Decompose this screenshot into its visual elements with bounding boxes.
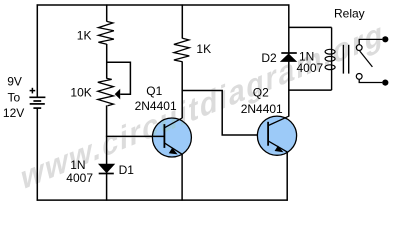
wire R2 top lead [181,4,183,38]
relay coil RL1 [325,49,335,69]
svg-text:Relay: Relay [334,7,365,21]
svg-text:1K: 1K [196,42,211,56]
svg-text:Q1: Q1 [146,84,162,98]
wire relay top branch [289,26,332,28]
relay contact pole top [356,36,388,50]
svg-text:12V: 12V [3,106,24,120]
wire Q1 emitter to rail [181,154,183,201]
svg-text:To: To [7,90,20,104]
svg-text:1K: 1K [77,28,92,42]
potentiometer VR1 10K [98,78,114,105]
wire R1 to pot [106,44,108,79]
wire pot wiper loop [107,62,131,94]
wire battery top lead [36,4,38,97]
resistor R2 [174,38,189,62]
transistor Q2 [257,116,296,155]
wire right branch (rail to Q2 collector) [288,4,290,116]
relay switch arm [360,51,373,67]
wire R1 top lead [106,4,108,21]
svg-text:D1: D1 [119,163,135,177]
wire pot bottom to ground rail [106,105,108,200]
svg-text:9V: 9V [7,75,22,89]
label battery 9V To 12V [3,75,24,121]
svg-text:10K: 10K [70,85,91,99]
relay contact pole bottom [356,74,388,86]
wire bottom rail [37,199,288,201]
wire relay coil lead [331,27,333,90]
resistor R1 [98,21,114,44]
wire Q2 emitter to rail [286,152,288,201]
wire top rail [37,4,290,6]
pot wiper arrow [115,89,121,100]
wire Q1 base [106,135,164,137]
diode D2 [281,53,297,62]
wire Q1 collector to Q2 base [182,91,268,136]
wire R2 to Q1 collector [181,62,183,119]
battery B1 [29,88,45,108]
relay core [343,45,348,74]
transistor Q1 [152,118,191,157]
diode D1 [99,164,115,173]
wire relay bottom branch [289,89,332,91]
wire battery bottom lead [36,108,38,201]
